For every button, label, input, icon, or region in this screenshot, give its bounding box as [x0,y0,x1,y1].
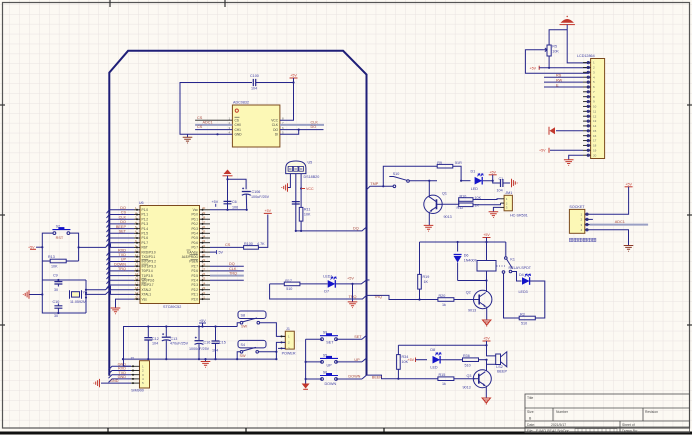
LED D7 [300,275,336,294]
wire crystal cluster [42,261,87,314]
svg-text:XTAL1: XTAL1 [142,293,152,297]
svg-text:CH1: CH1 [235,128,242,132]
svg-text:+5V: +5V [199,319,206,323]
switch S10 [389,172,437,187]
svg-text:LED: LED [471,187,479,191]
svg-text:16: 16 [593,134,597,138]
wire reset network [36,233,134,261]
svg-text:C13: C13 [171,337,178,341]
svg-text:100uF/25V: 100uF/25V [251,195,270,199]
svg-text:DQ: DQ [353,227,359,231]
svg-text:R20: R20 [439,294,446,298]
svg-text:Q1: Q1 [442,191,447,195]
crystal Y1 11.0592M [70,290,88,304]
svg-text:P1.6: P1.6 [142,236,149,240]
relay contacts [497,242,513,273]
svg-text:DOWN: DOWN [325,382,337,386]
svg-text:+5V: +5V [347,276,354,280]
svg-text:30: 30 [54,314,58,318]
svg-text:11.0592M: 11.0592M [70,300,86,304]
svg-text:C16: C16 [204,341,211,345]
svg-text:LED: LED [430,366,438,370]
resistor R20 1k [438,294,475,307]
svg-text:C15: C15 [219,341,226,345]
svg-text:104: 104 [212,349,218,353]
wire ADC CH0 pin2 net ADC1 (highlighted) [195,121,232,125]
svg-text:S8: S8 [241,314,246,318]
transistor Q3 9013 [463,370,492,390]
wire DQ to outline [295,227,367,232]
capacitor C100 104 [250,74,294,91]
svg-text:P2.2: P2.2 [191,288,198,292]
diode D6 junction to collector [458,279,488,281]
svg-text:P0.6: P0.6 [191,241,198,245]
svg-text:10K: 10K [51,264,58,268]
svg-text:VCC: VCC [271,118,278,122]
svg-text:J1: J1 [286,327,290,331]
wire SOCKET pin2 stub [590,218,593,220]
svg-text:R19: R19 [423,275,430,279]
svg-text:9013: 9013 [468,309,476,313]
svg-text:DO: DO [311,125,317,129]
svg-text:SW: SW [240,354,247,358]
svg-text:P0.3: P0.3 [191,227,198,231]
power +5V to LCD pin2 [530,66,589,71]
capacitor C1 104 [493,177,510,193]
capacitor C11 on DQ line [292,174,300,231]
svg-text:Title: Title [527,396,533,400]
svg-text:20: 20 [593,153,597,157]
svg-text:11: 11 [593,109,596,113]
resistor R9 51R (bypass) [382,161,462,188]
power +5V buzzer rail [483,337,491,346]
svg-text:SET: SET [119,230,127,234]
svg-text:CS: CS [225,243,231,247]
wire cap bus rails [122,325,276,366]
svg-text:17: 17 [593,139,597,143]
svg-text:SW: SW [241,324,248,328]
svg-text:CLK: CLK [119,215,127,219]
switch S8 [237,311,285,336]
svg-text:TXD: TXD [118,253,126,257]
svg-text:TRQ: TRQ [118,267,126,271]
svg-text:+5V: +5V [483,233,490,237]
svg-text:+5V: +5V [625,182,632,186]
svg-text:510: 510 [521,321,527,325]
wire ADC CLK pin7 (highlighted) [280,120,324,125]
svg-text:U5: U5 [308,161,313,165]
svg-text:30: 30 [54,288,58,292]
svg-text:P2.7: P2.7 [191,264,198,268]
svg-text:+5V: +5V [265,209,272,213]
svg-text:LCD12864: LCD12864 [577,54,595,58]
wire R5 wiper to LCD pin3 [525,50,588,74]
svg-text:SOCKET: SOCKET [569,205,585,209]
ground SOCKET pin4 [590,230,634,251]
svg-text:104: 104 [497,189,503,193]
svg-text:P1.5: P1.5 [142,232,149,236]
resistor R3 510 [504,273,545,325]
svg-text:LED3: LED3 [519,290,528,294]
ground SIM900 pin5 [94,379,131,387]
svg-text:P2.4: P2.4 [191,279,198,283]
connector SOCKET [569,205,589,233]
svg-text:DO: DO [273,128,278,132]
svg-text:ADC0832: ADC0832 [233,101,249,105]
svg-text:C10: C10 [53,300,60,304]
svg-text:SIM900: SIM900 [131,388,144,392]
power +5V LCD pin19 [539,148,583,153]
svg-text:CS: CS [197,116,203,120]
svg-text:R36: R36 [463,354,470,358]
power +5V label at D8 [408,358,428,363]
svg-text:J2: J2 [130,357,134,361]
svg-text:Drawn By:: Drawn By: [622,429,638,433]
wire ADC DI pin5 tied to DO [280,129,300,135]
svg-text:C12: C12 [152,337,159,341]
svg-text:BEEP: BEEP [116,225,127,229]
svg-text:UP: UP [121,258,127,262]
svg-text:D8: D8 [430,348,435,352]
svg-text:4.7K: 4.7K [257,242,265,246]
pushbutton S6 DOWN [306,371,367,386]
svg-text:INT1/P3.3: INT1/P3.3 [142,264,157,268]
svg-text:SET: SET [326,341,334,345]
wires XTAL2 XTAL1 to U6 [85,286,134,295]
svg-text:Revision: Revision [645,410,658,414]
wire button bus + ground [302,339,310,389]
svg-text:RXD: RXD [118,248,126,252]
svg-text:9013: 9013 [463,386,471,390]
svg-text:E:\MCU51\41.SchDoc: E:\MCU51\41.SchDoc [536,429,569,433]
svg-text:P2.0: P2.0 [191,297,198,301]
sensor U5 DS18B20 [286,161,320,180]
power +5V above R100 [264,209,272,213]
wire ADC GND pin4 to ground and C100 [180,83,252,144]
pushbutton S2 reset [52,224,70,239]
switch S4 [236,340,276,360]
svg-text:UP: UP [327,364,333,368]
resistor R15 1k [438,373,475,386]
ground right of C1 [512,179,518,187]
svg-text:P0.5: P0.5 [191,236,198,240]
svg-text:DOWN: DOWN [348,374,360,378]
power +5V at ADC VCC [280,74,298,121]
ground at U6 Vss [111,299,134,314]
label sensor module (CJK) [569,238,596,242]
svg-text:RXD/P3.0: RXD/P3.0 [142,250,156,254]
power +5V reset [28,246,36,250]
svg-text:P1.4: P1.4 [142,227,149,231]
power VCC label right pin DS18B20 [300,174,314,208]
svg-text:U6: U6 [139,201,144,205]
power +5V at D1 [483,170,497,181]
svg-text:PSEN: PSEN [189,260,198,264]
wire TMP from outline [367,182,394,190]
svg-text:R3: R3 [520,312,525,316]
svg-text:14: 14 [593,124,597,128]
svg-text:13: 13 [593,119,597,123]
svg-text:Size: Size [527,410,534,414]
svg-text:12: 12 [593,114,597,118]
svg-text:S6: S6 [323,371,328,375]
svg-text:5V: 5V [219,251,224,255]
svg-text:CS: CS [235,118,239,122]
ground left of crystal [23,290,43,298]
svg-text:GND: GND [118,375,127,379]
svg-text:S10: S10 [393,172,400,176]
svg-text:LS2: LS2 [496,365,503,369]
connector J1 POWER [275,327,296,360]
svg-text:S5: S5 [323,353,328,357]
svg-text:1k: 1k [442,382,446,386]
svg-text:RD/P3.7: RD/P3.7 [142,283,154,287]
power port +5V blue at U6 Vcc [212,200,219,207]
svg-text:+5V: +5V [483,337,490,341]
capacitor C13 470uF/25V [162,327,189,360]
svg-text:T0/P3.4: T0/P3.4 [142,269,153,273]
svg-text:P1.1: P1.1 [142,213,149,217]
wire TRQ to Q2 base [371,295,438,299]
wire BEEP net to Q3 base [367,375,438,379]
power port 5V at EA pin [210,250,224,254]
capacitor C9 30 [53,274,62,293]
ground Q3 emitter [482,386,490,404]
svg-text:+5V: +5V [489,170,496,174]
svg-text:106: 106 [232,206,238,210]
board outline wire [109,51,366,376]
svg-text:DQ: DQ [229,262,235,266]
svg-text:RST: RST [142,246,148,250]
svg-text:BEEP: BEEP [497,370,507,374]
svg-text:HC-SR501: HC-SR501 [510,214,528,218]
svg-text:P1.2: P1.2 [142,217,149,221]
LED D1 [461,170,483,191]
ground LCD pin20 [564,155,583,165]
wire left pin rows of U6 with outline jogs [107,206,135,289]
svg-text:XTAL2: XTAL2 [142,288,152,292]
buzzer LS2 BEEP [485,345,507,373]
svg-text:TXD/P3.1: TXD/P3.1 [142,255,156,259]
svg-text:TRQ: TRQ [229,272,237,276]
svg-text:104: 104 [251,87,257,91]
ground stub near D7 [348,283,358,308]
svg-text:CLK: CLK [272,123,279,127]
svg-text:Q2: Q2 [466,291,471,295]
svg-text:P0.2: P0.2 [191,222,198,226]
resistor R17 510 [270,279,300,291]
svg-text:R5: R5 [552,45,557,49]
svg-text:P1.0: P1.0 [142,208,149,212]
svg-text:STC89C52: STC89C52 [163,305,181,309]
wire relay +5V rail [420,241,506,243]
svg-text:JM1: JM1 [505,191,512,195]
power +5V relay rail [483,233,491,242]
svg-text:P0.0: P0.0 [191,213,198,217]
wire Q1 collector up [428,180,430,198]
svg-text:DO: DO [120,220,126,224]
svg-text:CS: CS [197,125,203,129]
microcontroller U6 STC89C52 [134,201,210,309]
svg-text:R13: R13 [48,255,55,259]
svg-text:Q3: Q3 [467,374,472,378]
wires LCD RS RW E pins [544,74,583,88]
svg-text:VCC: VCC [306,187,314,191]
svg-text:C100: C100 [250,74,259,78]
power symbol VCC arrow above C6 [223,170,233,210]
svg-text:+5V: +5V [290,74,297,78]
resistor R34 10K [397,345,409,380]
svg-text:POWER: POWER [282,351,296,355]
svg-text:P2.3: P2.3 [191,283,198,287]
transistor Q2 9013 [466,290,492,312]
svg-text:File:: File: [527,429,533,433]
ground left of DS18B20 [282,174,291,192]
transistor Q1 9013 [424,191,452,219]
power +5V cap bus [199,319,206,327]
svg-text:D6: D6 [464,253,469,257]
capacitor C15 104 [212,327,226,360]
svg-text:ALE/PROG: ALE/PROG [182,255,199,259]
svg-text:Date:: Date: [527,423,535,427]
svg-text:RST: RST [56,236,64,240]
svg-text:2021/5/17: 2021/5/17 [551,423,566,427]
svg-text:19: 19 [593,148,597,152]
svg-text:9013: 9013 [444,215,452,219]
svg-text:T1/P3.5: T1/P3.5 [142,274,153,278]
svg-text:ADC1: ADC1 [615,220,625,224]
svg-text:P0.4: P0.4 [191,232,198,236]
svg-text:RS: RS [556,74,562,78]
wire ADC DO pin6 [280,125,324,129]
svg-text:DOWN: DOWN [114,262,126,266]
svg-text:510: 510 [465,364,471,368]
capacitor C6 106 [224,200,239,210]
svg-text:R15: R15 [439,373,446,377]
ground Q1 emitter [424,212,434,231]
svg-text:1000uF/25V: 1000uF/25V [189,347,210,351]
svg-text:Vss: Vss [142,297,148,301]
capacitor C10 30 [53,300,63,318]
svg-text:Number: Number [556,410,569,414]
resistor R36 510 [463,354,487,368]
ground LCD pin15 [549,127,583,135]
svg-text:P2.1: P2.1 [191,293,198,297]
svg-text:SET: SET [354,335,362,339]
svg-text:R100: R100 [244,242,253,246]
svg-text:+5V: +5V [530,67,537,71]
svg-text:P2.5: P2.5 [191,274,198,278]
wire D7 cathode to +5V exit [336,276,370,284]
svg-text:+5V: +5V [408,358,415,362]
svg-text:10: 10 [593,105,597,109]
svg-text:R11: R11 [304,208,311,212]
svg-text:S2: S2 [56,224,61,228]
IC U3 ADC0832 [229,101,285,148]
svg-text:P0.7: P0.7 [191,246,198,250]
svg-text:DS18B20: DS18B20 [304,175,320,179]
power symbol wave above R5 [560,16,589,63]
svg-text:1k: 1k [442,303,446,307]
svg-text:RW: RW [556,78,563,82]
wire buzzer rail [398,344,487,346]
svg-text:C9: C9 [53,274,58,278]
svg-text:S9: S9 [323,331,328,335]
svg-text:+5V: +5V [539,149,546,153]
resistor R100 4.7K [244,215,268,250]
pushbutton S5 UP [306,353,367,367]
svg-text:LED1: LED1 [323,275,332,279]
relay K1 RELAY-SPDT coil [477,242,532,292]
svg-text:R10: R10 [460,195,467,199]
svg-text:EA/Vpp: EA/Vpp [187,250,198,254]
svg-text:15: 15 [593,129,597,133]
svg-text:1N4007: 1N4007 [464,258,477,262]
capacitor C16 1000uF/25V [189,327,210,360]
svg-text:GND: GND [235,133,243,137]
svg-text:P1.7: P1.7 [142,241,149,245]
svg-text:WR/P3.6: WR/P3.6 [142,279,155,283]
svg-text:P0.1: P0.1 [191,217,198,221]
svg-text:D4: D4 [519,273,524,277]
svg-text:P2.6: P2.6 [191,269,198,273]
resistors R10 R12 [442,195,501,210]
wires U6 P2.7-P2.4 with net labels [210,262,244,280]
svg-text:1K: 1K [424,280,429,284]
svg-text:C106: C106 [252,190,261,194]
wires SIM900 pins with net labels [109,363,132,383]
connector LCD12864 [577,54,605,159]
svg-text:CS: CS [121,211,127,215]
resistor R13 10K [42,255,78,268]
svg-text:CLK: CLK [311,120,319,124]
svg-text:TMP: TMP [370,182,378,186]
svg-text:CH0: CH0 [235,123,242,127]
svg-text:C1: C1 [499,177,504,181]
svg-text:CLK: CLK [229,267,237,271]
connector J2 SIM900 [130,357,150,393]
svg-text:18: 18 [593,144,597,148]
wire ADC CH1 pin3 [195,125,232,129]
title block [525,394,690,433]
svg-text:470uF/25V: 470uF/25V [170,342,189,346]
svg-text:R17: R17 [285,279,292,283]
svg-text:R9: R9 [437,161,442,165]
potentiometer R5 10K [544,30,568,69]
svg-text:51R: 51R [455,161,462,165]
svg-text:DI: DI [275,133,278,137]
svg-text:R12: R12 [457,206,464,210]
svg-text:K1: K1 [510,258,515,262]
svg-text:UP: UP [354,358,360,362]
svg-text:D1: D1 [471,170,476,174]
wire Vcc rail [210,178,248,211]
capacitor C12 104 [144,327,158,360]
resistor R19 1K [418,242,430,301]
svg-text:BEEP: BEEP [372,375,383,379]
wire SOCKET pin3 net ADC1 [590,220,649,224]
svg-text:Vcc: Vcc [193,208,199,212]
svg-text:ADC1: ADC1 [203,121,213,125]
svg-text:Sheet of: Sheet of [622,423,635,427]
LED D8 [430,348,462,369]
pin name overlines U6 [142,250,199,283]
svg-text:S4: S4 [241,343,246,347]
svg-text:+5V: +5V [212,200,219,204]
pushbutton S9 SET [306,331,367,345]
svg-text:GND: GND [110,379,119,383]
ground JM1 pin3 [489,207,501,217]
